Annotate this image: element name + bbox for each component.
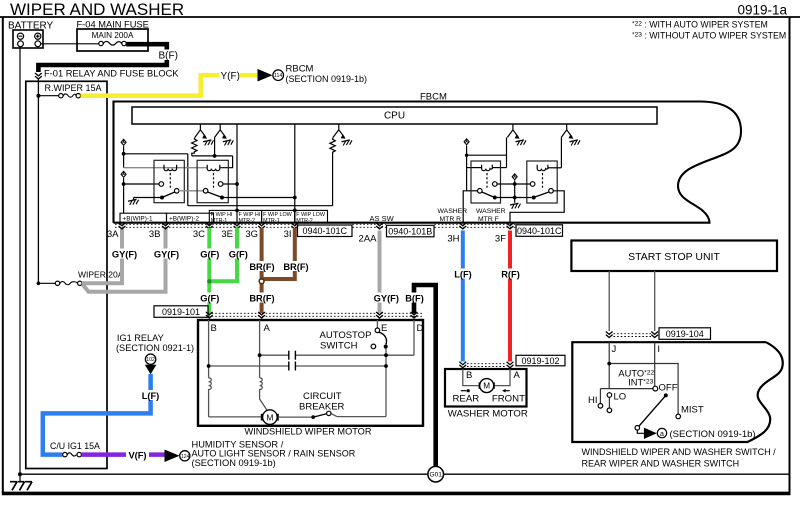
svg-text:+B(WIP)-1: +B(WIP)-1 <box>123 216 153 223</box>
svg-text:(SECTION 0919-1b): (SECTION 0919-1b) <box>286 74 368 84</box>
svg-text:GY(F): GY(F) <box>112 249 137 259</box>
svg-text:F-04 MAIN FUSE: F-04 MAIN FUSE <box>77 20 149 30</box>
svg-text:3B: 3B <box>149 229 161 240</box>
svg-text:REAR WIPER AND WASHER SWITCH: REAR WIPER AND WASHER SWITCH <box>582 458 740 468</box>
svg-text:+B(WIP)-2: +B(WIP)-2 <box>169 216 199 223</box>
svg-text:0919-104: 0919-104 <box>666 329 704 339</box>
svg-text:MTR-1: MTR-1 <box>211 218 227 224</box>
svg-text:START STOP UNIT: START STOP UNIT <box>628 251 720 263</box>
svg-text:OFF: OFF <box>659 383 678 394</box>
svg-text:WASHER: WASHER <box>476 208 506 215</box>
svg-text:WIPER 20A: WIPER 20A <box>78 269 124 279</box>
svg-text:2AA: 2AA <box>359 234 378 245</box>
svg-text:MAIN 200A: MAIN 200A <box>92 31 134 40</box>
svg-text:SWITCH: SWITCH <box>320 341 358 352</box>
svg-text:114: 114 <box>274 73 282 79</box>
svg-text:(SECTION 0919-1b): (SECTION 0919-1b) <box>192 458 276 468</box>
svg-text:A: A <box>514 370 521 381</box>
svg-text:R(F): R(F) <box>501 269 520 279</box>
svg-text:0919-1a: 0919-1a <box>737 3 787 18</box>
svg-text:CIRCUIT: CIRCUIT <box>303 391 342 402</box>
svg-text:B(F): B(F) <box>405 293 424 303</box>
svg-text:L(F): L(F) <box>454 269 472 279</box>
svg-text:3H: 3H <box>447 234 459 245</box>
svg-text:IG1 RELAY: IG1 RELAY <box>117 333 164 343</box>
svg-text:M: M <box>483 382 490 391</box>
svg-text:0940-101B: 0940-101B <box>388 226 432 236</box>
svg-text:B(F): B(F) <box>159 51 178 62</box>
svg-text:I: I <box>657 344 660 355</box>
svg-text:REAR: REAR <box>453 394 480 405</box>
svg-text:D: D <box>417 323 424 334</box>
svg-text:3A: 3A <box>107 229 119 240</box>
svg-text:3G: 3G <box>245 229 258 240</box>
svg-text:WINDSHIELD WIPER AND WASHER SW: WINDSHIELD WIPER AND WASHER SWITCH / <box>582 447 777 457</box>
svg-text:R.WIPER 15A: R.WIPER 15A <box>45 83 102 93</box>
svg-text:WASHER: WASHER <box>438 208 468 215</box>
svg-text:*23 : WITHOUT AUTO WIPER SYSTE: *23 : WITHOUT AUTO WIPER SYSTEM <box>632 31 786 41</box>
svg-text:G(F): G(F) <box>200 293 219 303</box>
svg-text:AS SW: AS SW <box>370 214 395 223</box>
svg-text:MTR-2: MTR-2 <box>296 218 312 224</box>
svg-text:(SECTION 0921-1): (SECTION 0921-1) <box>116 343 194 353</box>
svg-text:AUTOSTOP: AUTOSTOP <box>320 330 372 341</box>
svg-text:BR(F): BR(F) <box>249 293 274 303</box>
svg-text:a: a <box>660 431 664 438</box>
svg-text:0919-101: 0919-101 <box>162 307 200 317</box>
svg-text:3C: 3C <box>193 229 205 240</box>
svg-text:BR(F): BR(F) <box>283 262 308 272</box>
svg-text:B: B <box>466 370 472 381</box>
svg-text:BR(F): BR(F) <box>249 262 274 272</box>
svg-text:0919-102: 0919-102 <box>521 356 559 366</box>
svg-text:MTR R: MTR R <box>440 216 462 223</box>
svg-text:CPU: CPU <box>384 111 405 122</box>
svg-text:*22 : WITH AUTO WIPER SYSTEM: *22 : WITH AUTO WIPER SYSTEM <box>632 20 768 30</box>
svg-text:MTR-2: MTR-2 <box>239 218 255 224</box>
svg-text:G(F): G(F) <box>200 249 219 259</box>
svg-text:MIST: MIST <box>681 405 704 416</box>
svg-text:B: B <box>211 323 217 334</box>
svg-text:A: A <box>264 323 271 334</box>
svg-text:GY(F): GY(F) <box>154 249 179 259</box>
svg-text:MTR-1: MTR-1 <box>263 218 279 224</box>
svg-text:GY(F): GY(F) <box>374 293 399 303</box>
svg-text:124: 124 <box>181 454 190 460</box>
svg-text:J: J <box>612 344 617 355</box>
svg-text:WASHER MOTOR: WASHER MOTOR <box>448 408 528 419</box>
svg-text:G01: G01 <box>429 472 442 479</box>
svg-text:3F: 3F <box>495 234 506 245</box>
svg-text:0940-101C: 0940-101C <box>517 226 562 236</box>
svg-text:3E: 3E <box>221 229 233 240</box>
svg-text:0940-101C: 0940-101C <box>303 226 348 236</box>
svg-text:HI: HI <box>588 395 598 406</box>
svg-text:(SECTION 0919-1b): (SECTION 0919-1b) <box>670 429 756 440</box>
svg-text:V(F): V(F) <box>128 451 146 461</box>
svg-text:BREAKER: BREAKER <box>299 402 345 413</box>
svg-text:G(F): G(F) <box>229 249 248 259</box>
svg-text:C/U IG1 15A: C/U IG1 15A <box>50 441 100 451</box>
svg-text:LO: LO <box>614 392 627 403</box>
svg-text:MTR F: MTR F <box>478 216 499 223</box>
svg-text:M: M <box>266 412 273 422</box>
svg-text:Y(F): Y(F) <box>221 71 240 82</box>
svg-text:WINDSHIELD WIPER MOTOR: WINDSHIELD WIPER MOTOR <box>245 426 372 436</box>
svg-text:3I: 3I <box>284 229 292 240</box>
svg-text:L(F): L(F) <box>142 391 160 401</box>
svg-text:E: E <box>381 323 387 334</box>
svg-text:FRONT: FRONT <box>492 394 525 405</box>
svg-text:F-01 RELAY AND FUSE BLOCK: F-01 RELAY AND FUSE BLOCK <box>44 69 179 79</box>
svg-text:102: 102 <box>146 357 155 363</box>
